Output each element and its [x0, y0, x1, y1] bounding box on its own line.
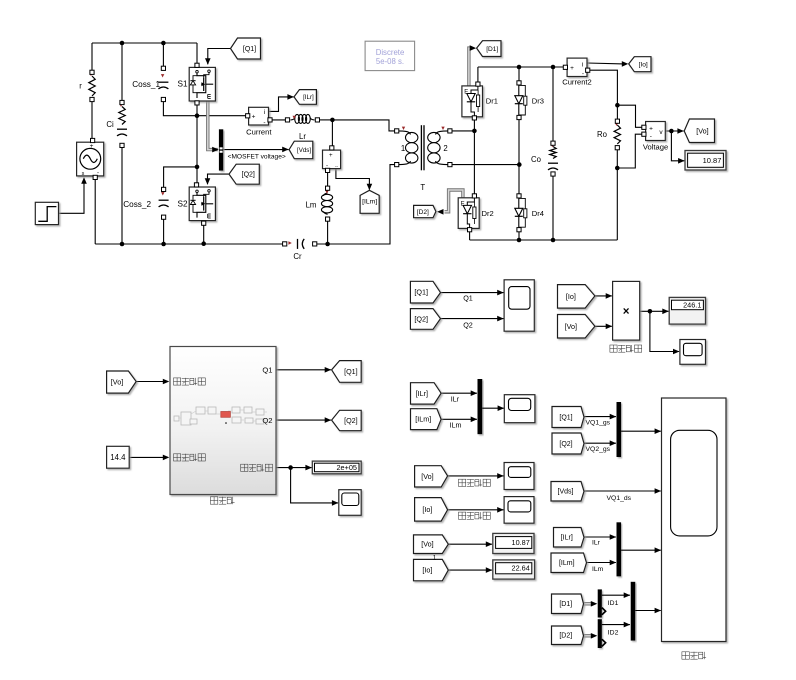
wire Voltage v to Vo tag	[665, 130, 683, 132]
node Lr output	[330, 118, 335, 123]
node bottom rail Ci	[120, 242, 125, 247]
wire Current minus to Lr	[270, 119, 288, 121]
from tag [Io] scope	[415, 498, 448, 521]
from tag [Io] product	[558, 285, 595, 309]
diode Dr3	[518, 83, 520, 96]
current measurement ILm meter	[323, 150, 341, 169]
node bottom rail Lm	[325, 242, 330, 247]
node bridge top rail Dr3	[517, 65, 522, 70]
port T secondary bottom	[448, 163, 452, 167]
svg-text:Ro: Ro	[597, 130, 608, 139]
wire Coss_2 branch	[164, 167, 197, 190]
port Dr1 bottom	[472, 116, 476, 120]
wire Vo to controller	[136, 381, 168, 383]
wire product to scope	[650, 311, 679, 351]
svg-text:2: 2	[443, 144, 447, 153]
port T secondary top	[448, 129, 452, 133]
svg-text:[Q2]: [Q2]	[559, 441, 572, 448]
product block 输出功率	[613, 281, 640, 340]
controller subsystem 控制器	[170, 347, 276, 495]
node bridge bottom Dr4	[517, 238, 522, 243]
goto tag [Q2]	[229, 164, 259, 184]
svg-text:i: i	[264, 109, 265, 116]
svg-text:[Vds]: [Vds]	[297, 147, 311, 154]
inductor Lm	[323, 193, 327, 196]
svg-text:S1: S1	[177, 80, 187, 89]
wire ILm meter signal to ILm tag	[336, 169, 370, 190]
goto tag [Io]	[629, 57, 651, 72]
port Ci top	[120, 100, 124, 104]
svg-text:<MOSFET voltage>: <MOSFET voltage>	[228, 153, 286, 160]
from tag [D2] right	[552, 626, 584, 645]
svg-text:-: -	[263, 119, 265, 126]
wire Co top	[552, 67, 554, 143]
from tag [ILr] mid	[411, 383, 442, 404]
wire Vo to scope	[448, 475, 504, 477]
port Current +	[246, 114, 250, 118]
svg-text:22.64: 22.64	[512, 564, 530, 573]
wire Current2 minus to Ro	[588, 70, 618, 121]
svg-text:[Q1]: [Q1]	[243, 46, 256, 53]
wire Ro bottom to rail	[616, 148, 618, 240]
constant 14.4	[107, 446, 130, 468]
label 输出功率	[610, 345, 617, 352]
goto tag [ILr]	[294, 90, 316, 105]
svg-text:5e-08 s.: 5e-08 s.	[376, 57, 404, 66]
wire secondary bottom to Dr3Dr4 mid	[450, 164, 519, 166]
wire bridge top rail	[478, 66, 566, 68]
node Ro bottom	[615, 166, 620, 171]
node top rail Coss_1	[161, 41, 166, 46]
svg-text:Current: Current	[246, 127, 272, 136]
wire Vo to product	[595, 325, 612, 327]
display 10.87 second	[493, 533, 534, 553]
svg-text:[ILm]: [ILm]	[362, 199, 377, 206]
port Cr right	[313, 242, 317, 246]
wire bottom rail left	[95, 243, 285, 245]
wire Current2 i to Io tag	[587, 62, 624, 65]
port Voltage +	[642, 125, 646, 129]
wire S1 drain	[196, 43, 198, 65]
transformer T	[420, 125, 422, 170]
svg-text:[D2]: [D2]	[559, 633, 572, 640]
wire Dr3 top	[518, 67, 520, 83]
wire ILr to mux2	[584, 536, 616, 538]
svg-text:[Io]: [Io]	[422, 566, 432, 575]
svg-text:[Q1]: [Q1]	[344, 367, 358, 376]
port Coss_2 bottom	[162, 215, 166, 219]
goto tag [D2]	[414, 205, 436, 217]
capacitor Cr	[297, 239, 299, 249]
from tag [ILm] mid	[411, 409, 442, 430]
wire secondary top to bridge	[450, 130, 475, 132]
svg-text:ILr: ILr	[592, 540, 601, 547]
node bottom rail Coss_2	[161, 242, 166, 247]
port Lr right	[315, 118, 319, 122]
wire midpoint column to S2	[196, 116, 198, 185]
port r bottom	[90, 97, 94, 101]
port Ci bottom	[120, 143, 124, 147]
node freq junction	[288, 465, 293, 470]
wire Ci branch top	[121, 43, 123, 103]
label 软开关	[682, 652, 689, 659]
wire midpoint rail	[197, 115, 248, 117]
svg-text:[Io]: [Io]	[422, 505, 432, 514]
port Cr left	[283, 242, 287, 246]
current measurement Current2	[567, 58, 587, 76]
wire node down to ILm meter	[331, 120, 333, 148]
wire S1 m output (thick)	[208, 101, 218, 150]
svg-text:[Q2]: [Q2]	[344, 416, 358, 425]
wire demux1 to mux3	[602, 594, 630, 596]
wire mux3 to scope	[635, 610, 661, 612]
wire S2 source to bottom rail	[203, 223, 205, 244]
wire Dr1 top to rail	[477, 67, 479, 84]
svg-text:s: s	[82, 171, 85, 177]
port Ro bottom	[615, 146, 619, 150]
svg-text:[D1]: [D1]	[486, 46, 498, 53]
transistor S2 (MOSFET)	[189, 187, 215, 221]
from tag [Q2] mid	[410, 309, 440, 330]
wire D2 to demux (thick)	[584, 634, 593, 637]
svg-text:[Vo]: [Vo]	[696, 126, 708, 135]
svg-text:-: -	[650, 133, 652, 140]
goto tag [D1]	[477, 41, 501, 57]
svg-text:+: +	[649, 125, 653, 132]
node product output	[648, 309, 653, 314]
svg-text:[D2]: [D2]	[417, 209, 429, 216]
node secondary top / Dr1-Dr2	[472, 129, 477, 134]
port S2 source	[202, 221, 206, 225]
port Dr3 top	[517, 81, 521, 85]
wire Vo to display	[448, 543, 492, 545]
step block Step	[35, 202, 58, 224]
wire Lr to node	[317, 119, 332, 121]
wire Ci branch bottom	[121, 145, 123, 244]
wire bottom rail right of Cr	[315, 165, 397, 244]
svg-text:Dr2: Dr2	[482, 209, 494, 218]
voltage measurement Voltage	[646, 122, 666, 141]
svg-text:+: +	[329, 152, 333, 159]
wire controller Q2 out	[276, 419, 331, 421]
wire S1 source to midpoint	[196, 103, 198, 116]
wire controller Q1 out	[276, 369, 331, 371]
svg-text:Current2: Current2	[562, 77, 592, 86]
svg-text:[D1]: [D1]	[559, 601, 572, 608]
wire node to Voltage plus	[617, 105, 644, 127]
svg-text:[Q1]: [Q1]	[414, 288, 428, 297]
wire product out	[640, 310, 669, 312]
diode Dr4	[518, 196, 520, 208]
svg-text:[ILr]: [ILr]	[303, 94, 314, 101]
wire Current i out to ILr tag	[269, 97, 294, 112]
annotation Discrete 5e-08 s	[365, 41, 415, 70]
port Coss_1 bottom	[161, 97, 165, 101]
port AC-	[93, 175, 97, 179]
svg-text:Ci: Ci	[106, 120, 114, 129]
port Dr4 bottom	[517, 228, 521, 232]
label 控制器	[210, 497, 217, 504]
scope 输出电流	[504, 497, 534, 524]
wire Io to display	[448, 569, 492, 571]
from tag [Vo] display	[414, 535, 449, 554]
wire top rail	[92, 42, 197, 44]
svg-text:Q1: Q1	[262, 366, 272, 375]
port S1 drain	[195, 63, 199, 67]
svg-text:[Io]: [Io]	[566, 292, 576, 301]
svg-text:2e+05: 2e+05	[337, 463, 358, 472]
capacitor Coss_1	[158, 81, 168, 83]
svg-text:Coss_2: Coss_2	[123, 200, 151, 209]
port Dr2 top	[472, 194, 476, 198]
svg-text:Lm: Lm	[306, 200, 317, 209]
wire bridge bottom rail	[470, 239, 618, 241]
goto tag [ILm]	[360, 190, 379, 213]
wire Co bottom	[552, 174, 554, 240]
svg-text:Co: Co	[531, 155, 542, 164]
node bridge top rail Co	[551, 65, 556, 70]
scope power	[680, 340, 706, 365]
wire node to transformer primary top	[332, 120, 396, 131]
wire ILm meter to Lm	[327, 170, 329, 188]
svg-text:[Vo]: [Vo]	[421, 472, 433, 481]
goto tag [Q1] controller	[332, 361, 362, 383]
label 输出电压	[459, 479, 466, 486]
port Voltage -	[642, 132, 646, 136]
port AC+	[91, 138, 95, 142]
capacitor Co (with ESR)	[550, 147, 556, 159]
wire Q2 to scope	[441, 318, 504, 320]
port T primary top	[395, 129, 399, 133]
port Lm top	[326, 186, 330, 190]
svg-text:T: T	[420, 183, 425, 192]
svg-text:[Vo]: [Vo]	[111, 378, 123, 387]
node bridge bottom Co	[551, 238, 556, 243]
svg-text:[Q2]: [Q2]	[242, 172, 255, 179]
svg-text:[Vo]: [Vo]	[565, 322, 577, 331]
svg-text:Dr3: Dr3	[532, 96, 544, 105]
svg-text:VQ1_gs: VQ1_gs	[586, 419, 611, 426]
port T primary bottom	[395, 163, 399, 167]
wire ILm to mux2	[587, 562, 616, 564]
wire Q2 to mux1	[584, 442, 616, 444]
scope 输出电压	[504, 463, 534, 490]
wire D1 to demux (thick)	[584, 602, 593, 605]
svg-text:14.4: 14.4	[110, 453, 126, 462]
wire Coss_1 bottom to midpoint	[163, 100, 197, 116]
wire Dr3 bottom to Dr4 top	[518, 118, 520, 196]
scope frequency	[339, 490, 361, 516]
wire ILm to mux	[441, 418, 477, 420]
port Coss_1 top	[161, 66, 165, 70]
from tag [Q2] right	[552, 433, 584, 454]
svg-text:[Io]: [Io]	[639, 62, 648, 69]
AC source Vin (controlled voltage source)	[77, 142, 104, 176]
svg-text:10.87: 10.87	[703, 156, 722, 165]
from tag [Q1] right	[552, 407, 584, 428]
wire selector to Vds tag	[223, 149, 288, 151]
port S1 source	[195, 101, 199, 105]
wire Coss_1 top	[162, 43, 164, 68]
wire mux1 to scope	[621, 430, 661, 432]
wire AC source minus to bottom rail	[94, 178, 96, 245]
svg-text:ILm: ILm	[592, 566, 604, 573]
wire node to display	[671, 131, 684, 161]
demux D1	[598, 589, 602, 617]
port Dr1 top	[476, 82, 480, 86]
capacitor Coss_2	[159, 199, 169, 201]
port Co top	[551, 141, 555, 145]
display 2e+05	[312, 461, 361, 474]
wire 14.4 to controller	[129, 456, 168, 458]
from tag [Vo] product	[558, 315, 595, 339]
svg-text:+: +	[90, 143, 94, 150]
capacitor Ci (with ESR)	[119, 107, 125, 125]
wire ILr to mux	[441, 392, 477, 394]
wire Q2 gate	[208, 174, 230, 184]
wire Io to scope	[448, 509, 504, 511]
wire Dr1 bottom to Dr2 top	[473, 118, 475, 196]
port Current -	[268, 118, 272, 122]
svg-text:Cr: Cr	[293, 252, 302, 261]
node Coss_2 tap	[195, 165, 200, 170]
svg-text:[ILr]: [ILr]	[416, 389, 428, 398]
port Ro top	[615, 119, 619, 123]
goto tag [Vds]	[289, 141, 313, 159]
wire demux2 to mux3	[602, 624, 630, 626]
svg-text:i: i	[582, 61, 583, 68]
port Co bottom	[551, 172, 555, 176]
svg-text:Voltage: Voltage	[643, 143, 668, 152]
wire Coss_2 bottom	[163, 217, 165, 244]
svg-text:ID2: ID2	[608, 629, 619, 636]
node secondary bottom / Dr3-Dr4	[517, 162, 522, 167]
svg-text:246.1: 246.1	[683, 300, 701, 309]
resistor r	[89, 76, 95, 96]
svg-text:Dr4: Dr4	[532, 209, 544, 218]
diode Dr2	[458, 198, 479, 229]
display Vo value	[685, 151, 726, 171]
svg-text:Q2: Q2	[463, 320, 473, 329]
wire Dr4 bottom	[518, 230, 520, 240]
svg-text:[ILr]: [ILr]	[561, 535, 573, 542]
port Dr3 bottom	[517, 115, 521, 119]
node top rail Ci	[120, 41, 125, 46]
svg-text:ILr: ILr	[451, 395, 460, 404]
svg-text:×: ×	[623, 306, 630, 318]
scope ILr ILm	[504, 395, 535, 423]
svg-text:--: --	[335, 163, 338, 168]
svg-text:r: r	[79, 82, 82, 91]
svg-text:1: 1	[433, 555, 437, 562]
scope 软开关	[662, 398, 727, 642]
svg-text:Coss_1: Coss_1	[132, 80, 160, 89]
current measurement Current	[249, 107, 269, 125]
bus selector (MOSFET measurement)	[219, 129, 223, 170]
port Coss_2 top	[162, 187, 166, 191]
svg-text:Dr1: Dr1	[486, 96, 498, 105]
from tag [Vo] controller input	[107, 371, 137, 393]
port Current2 +	[563, 65, 567, 69]
demux D2	[598, 619, 602, 648]
port Lr left	[285, 118, 289, 122]
wire Io to product	[595, 295, 612, 297]
from tag [Vo] scope	[415, 466, 448, 487]
goto tag [Vo]	[684, 119, 714, 143]
wire controller freq out	[276, 467, 312, 469]
wire mux2 to scope	[621, 549, 661, 551]
display 22.64	[493, 560, 535, 579]
node Voltage output	[669, 129, 674, 134]
wire Q1 to scope	[441, 292, 504, 294]
from tag [ILm] right	[551, 553, 587, 573]
wire Q1 to mux1	[584, 416, 616, 418]
display 246.1	[669, 297, 705, 324]
node bottom rail S2	[201, 241, 206, 246]
svg-text:VQ2_gs: VQ2_gs	[586, 446, 611, 453]
from tag [Q1] mid	[410, 281, 440, 303]
mux ILr ILm right	[617, 522, 622, 576]
svg-text:+: +	[570, 65, 574, 72]
svg-text:[Q2]: [Q2]	[414, 314, 428, 323]
port Lm bottom	[326, 217, 330, 221]
port Dr2 bottom	[468, 228, 472, 232]
wire freq to scope	[291, 468, 338, 503]
mux ILr ILm	[478, 379, 483, 434]
wire Dr2 bottom	[469, 230, 471, 240]
wire node to Voltage minus	[617, 134, 644, 168]
node midpoint	[195, 113, 200, 118]
svg-text:Q2: Q2	[262, 416, 272, 425]
inductor Lr	[291, 118, 296, 120]
mux VQ1 VQ2	[617, 402, 622, 457]
port r top	[90, 70, 94, 74]
svg-text:[ILm]: [ILm]	[415, 415, 431, 424]
from tag [D1] right	[552, 594, 584, 614]
svg-text:[Vo]: [Vo]	[421, 540, 433, 549]
wire Lm bottom to rail	[327, 219, 329, 244]
svg-text:VQ1_ds: VQ1_ds	[607, 495, 632, 502]
from tag [ILr] right	[554, 528, 585, 548]
node Current2 minus	[615, 103, 620, 108]
scope Q1Q2	[504, 280, 534, 331]
port Current2 -	[586, 68, 590, 72]
resistor Ro	[614, 125, 620, 144]
svg-text:S2: S2	[177, 199, 187, 208]
wire mux to scope	[482, 407, 504, 409]
goto tag [Q1]	[231, 38, 261, 59]
port ILm meter top	[330, 146, 334, 150]
svg-text:ILm: ILm	[450, 421, 462, 430]
transistor S1 (MOSFET)	[189, 67, 215, 101]
svg-text:[Vds]: [Vds]	[558, 489, 574, 496]
wire Vds to scope	[584, 490, 661, 492]
svg-text:Lr: Lr	[299, 132, 306, 141]
from tag [Vds] right	[551, 482, 584, 502]
port S2 drain	[194, 183, 198, 187]
goto tag [Q2] controller	[332, 410, 362, 430]
svg-text:1: 1	[401, 144, 405, 153]
svg-text:Q1: Q1	[463, 293, 473, 302]
diode Dr1	[462, 86, 483, 117]
from tag [Io] display	[414, 559, 449, 580]
wire Dr1 m output (thick)	[469, 48, 472, 86]
svg-text:10.87: 10.87	[512, 538, 530, 547]
svg-text:[Q1]: [Q1]	[559, 414, 572, 421]
svg-text:ID1: ID1	[608, 600, 619, 607]
svg-text:+: +	[252, 114, 256, 121]
port ILm meter bottom	[326, 168, 330, 172]
